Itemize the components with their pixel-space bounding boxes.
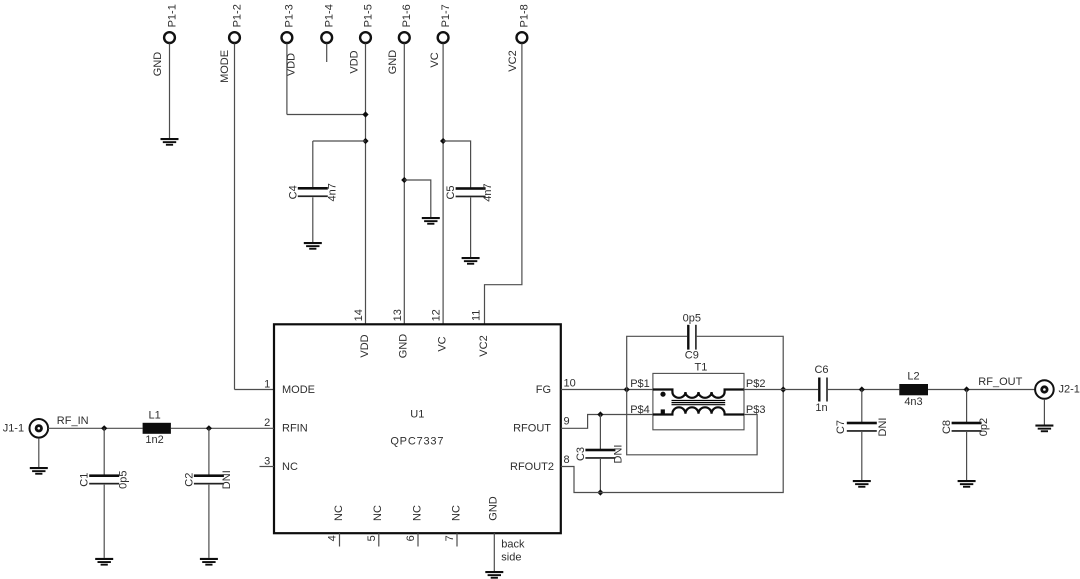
connector pin P1-3 (282, 32, 293, 43)
svg-text:1n: 1n (815, 402, 827, 414)
svg-text:P1-6: P1-6 (401, 4, 413, 27)
wire C2 bottom (208, 485, 210, 558)
svg-text:VDD: VDD (359, 334, 371, 357)
svg-text:GND: GND (387, 50, 399, 75)
svg-text:P$2: P$2 (746, 378, 766, 390)
node junction P$2 output (780, 386, 786, 392)
wire P1-3 to VDD column (287, 114, 366, 116)
svg-text:NC: NC (282, 461, 298, 473)
svg-text:P1-2: P1-2 (231, 4, 243, 27)
wire VC2 (485, 44, 522, 325)
node junction C3 bottom (597, 489, 603, 495)
svg-text:C9: C9 (685, 349, 699, 361)
svg-text:VC2: VC2 (478, 335, 490, 356)
svg-text:9: 9 (564, 416, 570, 428)
wire C5 bottom (470, 198, 472, 258)
wire C5 branch (443, 141, 471, 188)
svg-text:RFOUT: RFOUT (513, 422, 551, 434)
wire pin 9 RFOUT to P$4 (561, 415, 653, 429)
svg-text:DNI: DNI (877, 418, 889, 437)
wire L2 to J2 (928, 389, 1035, 391)
wire C4 top (312, 141, 314, 187)
wire RF_IN to L1 (48, 427, 143, 429)
capacitor C7 (847, 422, 877, 432)
svg-text:VC: VC (436, 336, 448, 351)
svg-text:C1: C1 (79, 473, 91, 487)
svg-text:U1: U1 (410, 409, 424, 421)
svg-text:QPC7337: QPC7337 (390, 436, 444, 448)
wire pin 10 FG to transformer (561, 389, 653, 391)
svg-text:13: 13 (392, 309, 404, 321)
svg-text:C4: C4 (287, 185, 299, 199)
svg-text:4n3: 4n3 (904, 396, 922, 408)
wire C3 bottom (599, 459, 601, 493)
svg-text:MODE: MODE (282, 384, 315, 396)
svg-text:4n7: 4n7 (482, 183, 494, 201)
wire P1-3 down (286, 44, 288, 115)
connector pin P1-2 (229, 32, 240, 43)
svg-text:T1: T1 (694, 362, 707, 374)
ground backside (485, 571, 503, 579)
ground C5 (462, 257, 480, 265)
connector pin P1-8 (517, 32, 528, 43)
svg-text:C2: C2 (183, 473, 195, 487)
ground C7 (853, 480, 871, 488)
pin stub 4 (339, 533, 341, 546)
svg-text:GND: GND (152, 52, 164, 77)
wire C7 top (861, 390, 863, 423)
svg-text:MODE: MODE (219, 50, 231, 83)
ground C4 (304, 242, 322, 250)
svg-text:11: 11 (471, 310, 483, 321)
svg-text:RF_IN: RF_IN (57, 415, 89, 427)
pin stub 3 (260, 466, 275, 468)
capacitor C3 (585, 449, 615, 459)
transformer T1 phase square secondary (661, 409, 665, 413)
wire C9 to right edge (697, 336, 784, 389)
wire J2 stem (1043, 400, 1045, 425)
ground C8 (958, 480, 976, 488)
IC U1 body (274, 324, 561, 533)
svg-text:10: 10 (564, 378, 576, 390)
connector pin P1-1 (164, 32, 175, 43)
coax connector J2-1 (1035, 380, 1054, 399)
svg-text:RFIN: RFIN (282, 422, 308, 434)
connector pin P1-5 (360, 32, 371, 43)
svg-text:J2-1: J2-1 (1059, 384, 1080, 396)
connector pin P1-4 (321, 32, 332, 43)
wire C2 top (208, 428, 210, 474)
wire C7 bottom (861, 432, 863, 480)
wire P$3 return path (627, 390, 757, 455)
capacitor C1 (89, 474, 119, 484)
transformer T1 core (672, 401, 726, 405)
wire C3 top (599, 415, 601, 450)
node junction C1 (101, 425, 107, 431)
capacitor C2 (194, 474, 224, 484)
node junction C2 (206, 425, 212, 431)
svg-text:back: back (501, 538, 525, 550)
svg-text:14: 14 (353, 309, 365, 321)
svg-text:1n2: 1n2 (145, 434, 163, 446)
svg-text:VC2: VC2 (507, 50, 519, 71)
node junction GND branch (401, 177, 407, 183)
svg-text:RF_OUT: RF_OUT (978, 376, 1022, 388)
svg-text:NC: NC (333, 505, 345, 521)
svg-text:2: 2 (264, 417, 270, 429)
svg-text:12: 12 (431, 309, 443, 321)
capacitor C4 (298, 187, 328, 197)
wire pin 8 RFOUT2 bottom loop (561, 390, 783, 493)
wire P$2 to C6 (744, 389, 819, 391)
svg-text:5: 5 (366, 535, 378, 541)
transformer T1 secondary winding (653, 407, 744, 414)
svg-text:P1-3: P1-3 (284, 4, 296, 27)
svg-text:8: 8 (564, 454, 570, 466)
svg-text:C7: C7 (835, 420, 847, 434)
wire VDD vertical to pin 14 (365, 44, 367, 325)
wire MODE vertical (234, 44, 236, 390)
svg-text:P1-1: P1-1 (166, 4, 178, 27)
svg-text:3: 3 (264, 455, 270, 467)
wire C4 bottom (312, 197, 314, 242)
svg-text:P1-8: P1-8 (519, 4, 531, 27)
svg-text:DNI: DNI (612, 445, 624, 464)
svg-text:C6: C6 (814, 364, 828, 376)
transformer T1 primary winding (653, 390, 744, 398)
wire C6 to L2 (828, 389, 900, 391)
node junction C3 top (597, 411, 603, 417)
transformer T1 box (653, 373, 744, 429)
svg-text:C8: C8 (941, 420, 953, 434)
pin stub 5 (378, 533, 380, 546)
svg-text:0p5: 0p5 (683, 312, 701, 324)
svg-text:L2: L2 (907, 370, 919, 382)
coax connector J1-1 (30, 419, 49, 438)
svg-text:6: 6 (405, 535, 417, 541)
pin stub 6 (417, 533, 419, 546)
inductor L2 (899, 384, 928, 395)
node junction VDD/C4 (362, 138, 368, 144)
ground J2 (1035, 425, 1053, 433)
svg-text:P$4: P$4 (630, 404, 650, 416)
ground P1-6 branch (422, 217, 440, 225)
wire GND branch (404, 180, 431, 217)
wire P1-4 stub (326, 44, 328, 63)
ground J1 (30, 467, 48, 475)
svg-text:J1-1: J1-1 (3, 422, 24, 434)
pin stub 7 (456, 533, 458, 546)
node junction P$1 (624, 386, 630, 392)
wire VC vertical to pin 12 (442, 44, 444, 325)
svg-text:0p5: 0p5 (118, 471, 130, 489)
svg-text:P1-4: P1-4 (324, 4, 336, 27)
wire C1 top (103, 428, 105, 474)
capacitor C9 (687, 325, 697, 350)
svg-text:NC: NC (372, 505, 384, 521)
wire C8 top (966, 390, 968, 423)
svg-text:4: 4 (327, 535, 339, 541)
ground C1 (95, 558, 113, 566)
svg-text:FG: FG (536, 384, 551, 396)
wire L1 to pin 2 (171, 427, 274, 429)
svg-text:4n7: 4n7 (326, 183, 338, 201)
svg-text:NC: NC (450, 505, 462, 521)
svg-text:P1-7: P1-7 (440, 4, 452, 27)
ground C2 (200, 558, 218, 566)
inductor L1 (143, 423, 171, 434)
svg-text:NC: NC (411, 505, 423, 521)
capacitor C8 (952, 422, 982, 432)
svg-text:side: side (501, 552, 521, 564)
node junction C8 (964, 386, 970, 392)
svg-text:P$3: P$3 (746, 404, 766, 416)
svg-text:P1-5: P1-5 (362, 4, 374, 27)
svg-text:L1: L1 (148, 409, 160, 421)
capacitor C6 (818, 378, 828, 402)
connector pin P1-6 (399, 32, 410, 43)
wire GND vertical to pin 13 (403, 44, 405, 325)
wire backside GND pin (493, 533, 495, 571)
svg-text:0p2: 0p2 (978, 418, 990, 436)
transformer T1 phase dot primary (660, 392, 665, 397)
svg-text:RFOUT2: RFOUT2 (510, 461, 554, 473)
svg-text:C3: C3 (575, 447, 587, 461)
wire C4 branch horizontal (313, 140, 366, 142)
ground P1-1 (161, 138, 179, 146)
svg-text:P$1: P$1 (630, 378, 650, 390)
svg-text:C5: C5 (445, 185, 457, 199)
svg-text:1: 1 (264, 378, 270, 390)
svg-text:VC: VC (429, 52, 441, 67)
wire P1-1 to ground (169, 44, 171, 139)
capacitor C5 (456, 187, 486, 197)
node junction VC/C5 (440, 138, 446, 144)
wire MODE to pin 1 (235, 389, 275, 391)
node junction C7 (859, 386, 865, 392)
svg-text:7: 7 (444, 535, 456, 541)
connector pin P1-7 (438, 32, 449, 43)
svg-text:VDD: VDD (349, 50, 361, 73)
wire C8 bottom (966, 432, 968, 480)
svg-text:DNI: DNI (221, 470, 233, 489)
wire J1 stem (38, 439, 40, 467)
wire C1 bottom (103, 485, 105, 558)
wire C9 loop top (627, 336, 687, 389)
node junction VDD/P1-3 (362, 111, 368, 117)
svg-text:GND: GND (488, 496, 500, 521)
svg-text:GND: GND (398, 334, 410, 359)
